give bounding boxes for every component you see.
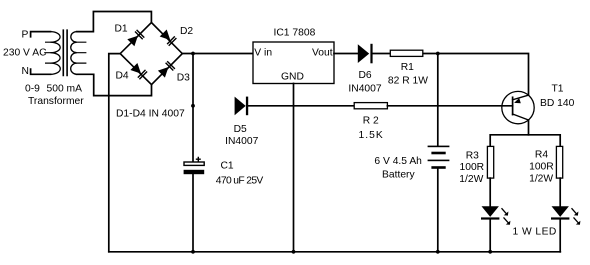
transformer secondary junction ticks (77, 42, 86, 63)
svg-text:T1: T1 (552, 84, 564, 95)
svg-text:Vout: Vout (312, 48, 333, 59)
wire bridge negative output to bottom rail (109, 54, 120, 252)
wire bottom rail (109, 251, 561, 253)
svg-text:1/2W: 1/2W (529, 174, 553, 185)
battery B1 plate long top (428, 146, 450, 148)
diode D5 symbol (235, 97, 246, 116)
resistor R3 body (487, 146, 493, 178)
svg-text:P: P (22, 29, 29, 40)
svg-text:470 uF 25V: 470 uF 25V (216, 175, 264, 186)
svg-text:Transformer: Transformer (28, 96, 84, 107)
svg-text:500 mA: 500 mA (47, 83, 83, 94)
resistor R2 body (354, 103, 387, 109)
wire LED1 to bottom rail (489, 220, 491, 252)
transistor T1 circle (502, 91, 534, 123)
svg-text:D6: D6 (359, 70, 372, 81)
wire secondary bottom terminal to bridge AC bottom (77, 74, 152, 95)
svg-text:D4: D4 (116, 71, 129, 82)
wire R1 to junction and to T1 emitter (424, 54, 529, 96)
wire R2 to T1 base (387, 105, 512, 107)
wire LED2 to bottom rail (559, 220, 561, 252)
diode D2 symbol (160, 30, 171, 41)
LED2 symbol (552, 206, 569, 217)
transformer TR1 primary winding (51, 32, 61, 75)
svg-text:R3: R3 (466, 150, 479, 161)
capacitor C1 top plate (184, 162, 204, 165)
diode D4 symbol (130, 63, 141, 74)
junction node C1 on bottom rail (191, 250, 195, 254)
wire T1 collector down to bus (528, 120, 530, 135)
wire IC1 GND pin to bottom rail (293, 84, 295, 252)
svg-text:R4: R4 (535, 149, 548, 160)
diode D1 symbol (127, 36, 138, 47)
capacitor C1 plus sign (196, 157, 201, 162)
wire IC1 Vout to D6 (334, 53, 358, 55)
wire R4 to LED2 (559, 178, 561, 206)
svg-text:230 V AC: 230 V AC (3, 48, 47, 59)
svg-text:V in: V in (254, 48, 272, 59)
svg-text:100R: 100R (529, 162, 554, 173)
junction node after R1 (436, 52, 440, 56)
svg-text:1/2W: 1/2W (459, 174, 483, 185)
svg-text:BD 140: BD 140 (540, 98, 575, 109)
svg-text:D5: D5 (234, 124, 247, 135)
capacitor C1 bottom plate (184, 170, 205, 174)
svg-text:D3: D3 (177, 72, 190, 83)
transistor T1 emitter line (513, 95, 529, 100)
svg-text:IN4007: IN4007 (348, 84, 381, 95)
transistor T1 base bar (512, 97, 514, 114)
LED1 emission arrows (502, 208, 510, 224)
transistor T1 emitter arrow (514, 98, 521, 103)
svg-text:GND: GND (281, 71, 304, 82)
wire D5 cathode to R2 (249, 105, 355, 107)
wire junction down to battery plus (437, 54, 439, 147)
svg-text:R 2: R 2 (363, 116, 379, 127)
svg-text:N: N (22, 66, 29, 77)
svg-text:1.5K: 1.5K (359, 130, 383, 141)
svg-text:D1: D1 (115, 24, 128, 35)
wire C1 bottom to rail (192, 174, 194, 252)
svg-text:R1: R1 (401, 62, 414, 73)
wire P terminal hook (31, 32, 51, 37)
svg-text:IN4007: IN4007 (225, 136, 258, 147)
svg-text:C1: C1 (221, 161, 234, 172)
wire D5 node down to C1 (192, 106, 194, 162)
bridge rectifier diamond (120, 23, 182, 85)
battery B1 plate short thick bottom (431, 166, 445, 169)
LED2 emission arrows (572, 208, 580, 224)
svg-text:Battery: Battery (382, 169, 415, 180)
svg-text:100R: 100R (460, 162, 485, 173)
junction node at D5 input (191, 104, 195, 108)
svg-text:D2: D2 (180, 26, 193, 37)
resistor R4 body (556, 146, 562, 178)
svg-text:IC1 7808: IC1 7808 (274, 28, 316, 39)
wire secondary top terminal to bridge AC top (77, 12, 152, 32)
diode D6 symbol (358, 44, 369, 63)
junction node GND on bottom rail (292, 250, 296, 254)
diode D3 symbol (158, 67, 169, 78)
wire battery minus to bottom rail (437, 168, 439, 252)
transformer primary junction ticks (45, 42, 51, 63)
LED1 symbol (482, 206, 499, 217)
wire R3 to LED1 (489, 178, 491, 206)
svg-text:D1-D4 IN 4007: D1-D4 IN 4007 (116, 109, 185, 120)
svg-text:6 V 4.5 Ah: 6 V 4.5 Ah (374, 156, 422, 167)
junction node LED1 on bottom rail (488, 250, 492, 254)
junction node at positive rail branch (191, 52, 195, 56)
wire bridge positive output to IC1 Vin (182, 53, 253, 55)
junction node battery on bottom rail (436, 250, 440, 254)
IC1 7808 regulator box (253, 42, 334, 84)
battery B1 plate long (428, 160, 450, 162)
wire collector bus to R3 R4 (490, 135, 560, 147)
svg-text:82 R 1W: 82 R 1W (388, 75, 428, 86)
transistor T1 collector line (513, 114, 529, 120)
transformer TR1 secondary winding (71, 32, 77, 75)
transformer core bars (63, 30, 67, 75)
wire N terminal hook (31, 69, 51, 74)
battery B1 plate short thick (431, 152, 445, 155)
wire branch from positive rail down to D5 node (192, 54, 194, 106)
svg-text:0-9: 0-9 (25, 83, 40, 94)
svg-text:1 W LED: 1 W LED (513, 226, 557, 237)
resistor R1 body (390, 50, 423, 56)
wire D6 cathode to R1 (373, 53, 391, 55)
